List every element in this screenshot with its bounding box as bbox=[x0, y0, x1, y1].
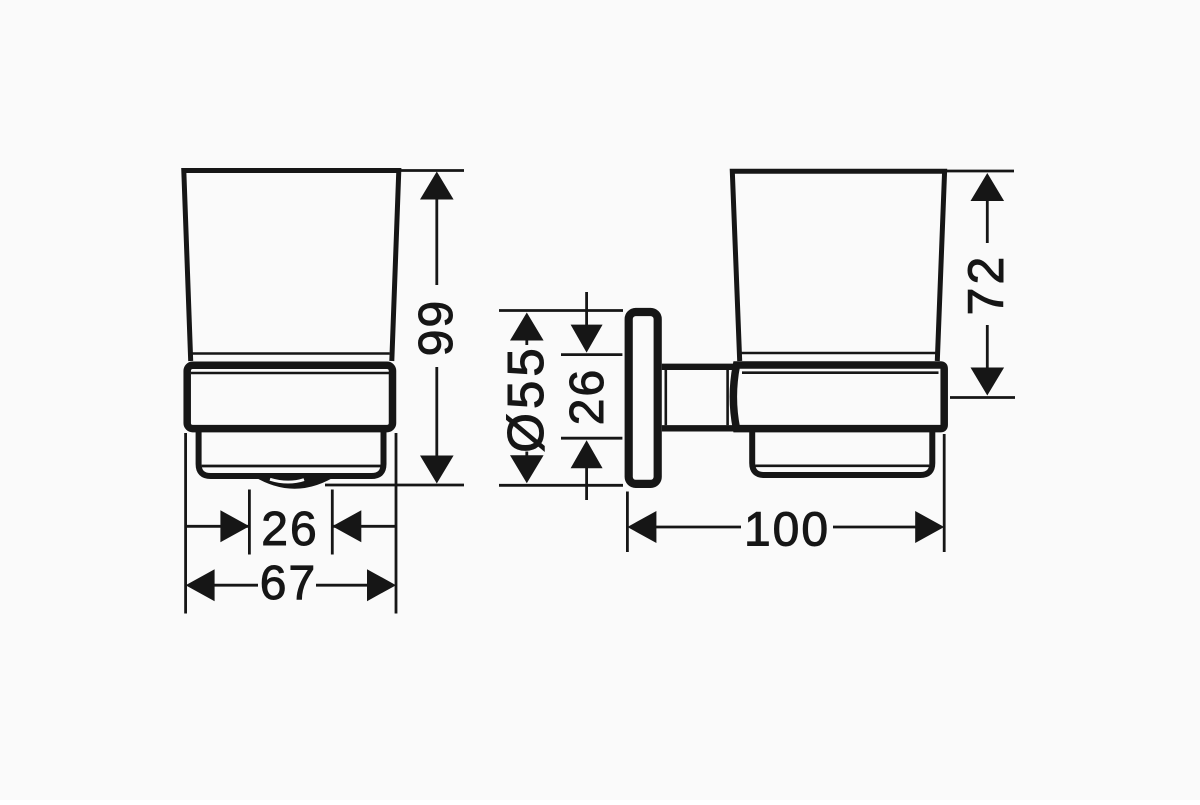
left view: glass/holder junction line bbox=[193, 352, 390, 355]
right view: lower cup outer bbox=[752, 431, 932, 475]
right view: arm collar lines bbox=[666, 370, 728, 425]
dim 67 extension lines bbox=[186, 433, 396, 614]
svg-text:72: 72 bbox=[958, 254, 1014, 316]
left view: lower cup outer bbox=[199, 431, 384, 476]
dim 55 line with arrows bbox=[525, 340, 528, 456]
dim 100 dimension line bbox=[656, 526, 916, 529]
right view: lower cup inner line bbox=[755, 464, 929, 467]
dim 26 left-view extension lines bbox=[249, 490, 332, 555]
svg-text:Ø55: Ø55 bbox=[497, 344, 554, 452]
left view: holder ring inner line bbox=[191, 372, 389, 375]
dim 72 bottom extension line bbox=[950, 396, 1015, 399]
dim 99 top extension line bbox=[399, 169, 464, 172]
svg-text:99: 99 bbox=[410, 299, 463, 356]
svg-text:26: 26 bbox=[561, 368, 614, 425]
right view: glass bottom line bbox=[741, 352, 938, 355]
dim 55 top extension line bbox=[499, 309, 623, 312]
dim 72 top extension line bbox=[947, 170, 1014, 173]
left view: glass tumbler outline bbox=[184, 171, 399, 362]
dim 55 bottom extension line bbox=[499, 484, 623, 487]
dim 72 line with arrows bbox=[986, 201, 989, 369]
left view: holder ring band bbox=[187, 365, 392, 428]
svg-text:67: 67 bbox=[260, 557, 317, 610]
svg-text:100: 100 bbox=[744, 504, 830, 557]
right view: arm top and bottom edges bbox=[662, 367, 735, 429]
dim 26 right-view extension lines bbox=[561, 355, 622, 439]
left view: glass foot bump bbox=[250, 474, 339, 489]
right view: holder ring band bbox=[733, 365, 944, 429]
right view: wall plate bbox=[629, 312, 658, 484]
left view: lower cup inner line bbox=[202, 465, 381, 468]
right view: glass tumbler outline bbox=[732, 171, 944, 361]
dim 67 dimension line bbox=[214, 584, 368, 587]
dim 99 bottom extension line bbox=[325, 484, 464, 487]
right view: holder ring inner line bbox=[742, 371, 939, 374]
dim 26 right-view arrows and stems bbox=[585, 292, 588, 500]
dim 100 extension lines bbox=[627, 434, 944, 552]
dim 99 line with arrows bbox=[435, 199, 438, 457]
dim 26 left-view dimension line bbox=[186, 525, 396, 528]
svg-text:26: 26 bbox=[261, 503, 318, 556]
